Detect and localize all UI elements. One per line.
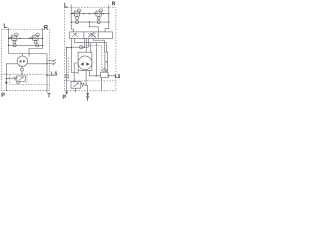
right center drop cluster — [83, 38, 85, 47]
right L feed wire to valve block — [71, 14, 73, 32]
right cross wire — [71, 21, 109, 23]
label L left — [4, 24, 7, 28]
left relief outlet node — [17, 81, 20, 84]
right inner drain wire — [71, 48, 78, 73]
left motor outlet wire — [28, 63, 55, 65]
right P node circle — [65, 75, 68, 78]
left cut line lower break mark — [53, 62, 56, 65]
label LS left — [52, 72, 57, 75]
left motor top port stub — [22, 54, 24, 57]
right relief outlet — [74, 88, 76, 92]
left cut line upper with break mark — [47, 60, 55, 62]
left P flow arrow — [5, 80, 8, 83]
right subsystem internal dashed divider — [64, 80, 116, 82]
left relief valve RV1 — [17, 76, 25, 81]
left LS exit wire — [47, 74, 54, 76]
right solenoid rail wire — [71, 13, 109, 15]
right LS valve outlet drop — [101, 78, 103, 91]
left L feed wire down and across — [9, 38, 47, 53]
left LS/T riser wire — [46, 54, 48, 93]
right T flow arrow — [86, 93, 89, 96]
label R left — [45, 25, 48, 29]
label P right — [63, 95, 65, 99]
right wire y42.7 across — [74, 43, 106, 52]
right tank wire — [85, 85, 88, 94]
right port line R — [108, 5, 110, 14]
right wire to throttle — [93, 38, 104, 52]
right junction dots — [66, 13, 110, 82]
right rect side extension — [77, 71, 79, 75]
label T left — [48, 93, 51, 97]
left relief valve spring — [13, 77, 17, 80]
left R feed wire down to motor — [29, 38, 43, 56]
right solenoid valve V3 — [72, 9, 81, 20]
label L right — [65, 3, 68, 7]
left port line R — [42, 29, 44, 39]
right motor assembly dashed sub-box — [68, 46, 101, 81]
right relief valve RV2 — [71, 81, 81, 88]
valve block position 1 arrows — [72, 33, 78, 37]
left port line L — [8, 28, 10, 38]
right motor left port wire — [74, 63, 78, 81]
right directional valve block U1 — [70, 32, 113, 39]
right mid feed wire — [89, 22, 98, 32]
right LS wire — [89, 75, 116, 77]
label LS right — [115, 75, 120, 78]
right cross-line node circles — [75, 21, 78, 24]
right wire below block B — [73, 38, 75, 42]
right port line L — [70, 5, 72, 14]
left subsystem internal dashed divider — [1, 73, 49, 75]
right P end arrow — [65, 92, 68, 95]
right LS pilot valve — [101, 72, 109, 77]
left relief spring to P wire — [6, 78, 13, 80]
left solenoid valve V2 — [30, 33, 39, 44]
valve block position 2 arrows — [88, 33, 95, 37]
right port A drop wire — [70, 38, 72, 47]
right solenoid valve V4 — [94, 9, 103, 20]
left cross wire — [9, 44, 43, 46]
left cross-line node circles — [13, 44, 16, 47]
right R feed wire to valve block — [105, 14, 109, 32]
left solenoid rail wire — [9, 37, 43, 39]
right gauge wire with node circle — [71, 46, 88, 48]
right P riser wire — [67, 48, 72, 95]
left P supply wire with node — [6, 64, 17, 91]
left motor drain stub and node — [21, 66, 23, 68]
left solenoid valve V1 — [9, 33, 18, 44]
right hydraulic motor M2 — [78, 56, 92, 70]
label P left — [2, 93, 4, 97]
label T right — [86, 97, 89, 101]
left relief valve dashed sub-box — [10, 74, 50, 84]
right subsystem dashed enclosure — [64, 8, 116, 91]
right relief spring — [81, 83, 85, 86]
left hydraulic motor M1 — [17, 56, 27, 66]
right motor right wires — [85, 70, 87, 85]
left junction dots — [6, 38, 48, 80]
right throttle element — [105, 52, 108, 71]
left subsystem dashed enclosure — [1, 30, 49, 91]
right motor enclosure — [78, 52, 92, 70]
label R right — [113, 2, 115, 5]
